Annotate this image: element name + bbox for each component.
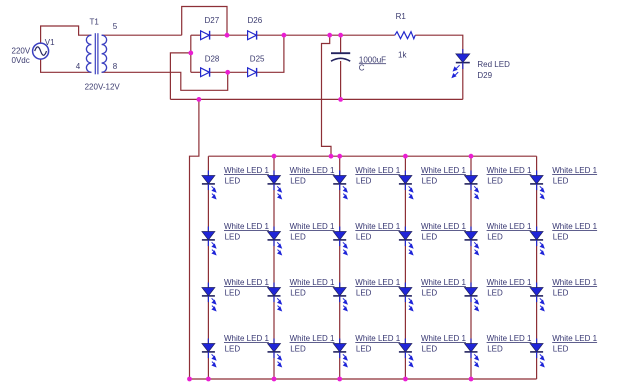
junction DC+ D25/D26 bbox=[282, 33, 287, 38]
junction bottom rail col4 bbox=[403, 377, 408, 382]
LED white (col 6, row 2) bbox=[530, 227, 544, 255]
svg-text:D29: D29 bbox=[477, 71, 492, 80]
svg-text:D28: D28 bbox=[205, 55, 220, 64]
svg-text:LED: LED bbox=[422, 177, 438, 186]
LED white (col 5, row 2) bbox=[465, 227, 479, 255]
junction top rail col4 bbox=[403, 154, 408, 159]
wire DC- tap to rail bbox=[170, 53, 190, 100]
LED white (col 4, row 2) bbox=[399, 227, 413, 255]
junction bottom rail col5 bbox=[469, 377, 474, 382]
wire D25 cathode up to DC+ rail bbox=[257, 35, 284, 72]
svg-text:LED: LED bbox=[422, 345, 438, 354]
svg-text:D25: D25 bbox=[250, 55, 265, 64]
wire LED array return bbox=[190, 99, 199, 379]
svg-text:LED: LED bbox=[290, 345, 306, 354]
LED white (col 5, row 1) bbox=[465, 171, 479, 199]
junction top rail col5 bbox=[469, 154, 474, 159]
svg-text:LED: LED bbox=[225, 289, 241, 298]
junction top rail feed bbox=[329, 154, 334, 159]
svg-text:5: 5 bbox=[113, 22, 118, 31]
LED white (col 2, row 1) bbox=[268, 171, 282, 199]
LED white (col 1, row 1) bbox=[202, 171, 216, 199]
svg-text:R1: R1 bbox=[396, 12, 407, 21]
LED white (col 6, row 1) bbox=[530, 171, 544, 199]
wire LED column 4 bbox=[404, 156, 406, 379]
LED white (col 1, row 3) bbox=[202, 283, 216, 311]
junction bottom rail col1 bbox=[206, 377, 211, 382]
svg-text:LED: LED bbox=[356, 233, 372, 242]
LED white (col 5, row 3) bbox=[465, 283, 479, 311]
svg-text:LED: LED bbox=[553, 177, 569, 186]
svg-text:LED: LED bbox=[553, 289, 569, 298]
svg-text:White LED 1: White LED 1 bbox=[487, 334, 532, 343]
wire DC+ drop to LED array bbox=[322, 35, 332, 156]
wire LED array top rail bbox=[208, 155, 536, 157]
junction top rail col2 bbox=[272, 154, 277, 159]
svg-text:D26: D26 bbox=[248, 16, 263, 25]
svg-text:V1: V1 bbox=[45, 38, 55, 47]
wire LED array bottom rail bbox=[190, 378, 537, 380]
diode D25 bbox=[248, 68, 257, 77]
svg-text:White LED 1: White LED 1 bbox=[290, 166, 335, 175]
LED white (col 6, row 4) bbox=[530, 339, 544, 367]
svg-text:White LED 1: White LED 1 bbox=[487, 278, 532, 287]
svg-text:LED: LED bbox=[553, 345, 569, 354]
junction cap bottom bbox=[338, 97, 343, 102]
LED white (col 3, row 1) bbox=[333, 171, 347, 199]
svg-text:White LED 1: White LED 1 bbox=[355, 222, 400, 231]
LED white (col 2, row 4) bbox=[268, 339, 282, 367]
wire D27 cathode to D26 anode bbox=[210, 34, 248, 36]
svg-text:White LED 1: White LED 1 bbox=[552, 166, 597, 175]
wire D27 anode lead bbox=[191, 34, 201, 36]
svg-text:White LED 1: White LED 1 bbox=[487, 222, 532, 231]
svg-text:D27: D27 bbox=[205, 16, 220, 25]
svg-text:220V: 220V bbox=[12, 47, 31, 56]
wire pin-5 hop over D27 anode bbox=[182, 7, 227, 36]
diode D27 bbox=[201, 31, 210, 40]
svg-text:White LED 1: White LED 1 bbox=[355, 278, 400, 287]
LED white (col 2, row 3) bbox=[268, 283, 282, 311]
svg-text:White LED 1: White LED 1 bbox=[290, 334, 335, 343]
svg-text:White LED 1: White LED 1 bbox=[552, 222, 597, 231]
svg-text:White LED 1: White LED 1 bbox=[290, 278, 335, 287]
svg-text:LED: LED bbox=[487, 345, 503, 354]
svg-text:220V-12V: 220V-12V bbox=[85, 83, 121, 92]
junction bottom rail col3 bbox=[337, 377, 342, 382]
svg-text:LED: LED bbox=[356, 177, 372, 186]
wire V1 bottom to T1 primary (pin 4) bbox=[41, 59, 92, 72]
red LED D29 bbox=[452, 49, 470, 77]
svg-text:White LED 1: White LED 1 bbox=[421, 222, 466, 231]
svg-text:C: C bbox=[359, 64, 365, 73]
wire V1 top to T1 primary bbox=[41, 26, 92, 43]
LED white (col 6, row 3) bbox=[530, 283, 544, 311]
wire LED column 6 bbox=[536, 156, 538, 379]
wire LED column 5 bbox=[470, 156, 472, 379]
wire capacitor bottom lead bbox=[340, 61, 342, 99]
LED white (col 3, row 4) bbox=[333, 339, 347, 367]
LED white (col 1, row 4) bbox=[202, 339, 216, 367]
svg-text:White LED 1: White LED 1 bbox=[487, 166, 532, 175]
diode D26 bbox=[248, 31, 257, 40]
wire LED column 3 bbox=[339, 156, 341, 379]
wire DC- rail bbox=[170, 98, 462, 100]
LED white (col 3, row 3) bbox=[333, 283, 347, 311]
svg-text:LED: LED bbox=[487, 177, 503, 186]
svg-text:White LED 1: White LED 1 bbox=[224, 334, 269, 343]
junction bottom rail col2 bbox=[272, 377, 277, 382]
diode D28 bbox=[201, 68, 210, 77]
junction DC+ array tap bbox=[327, 33, 332, 38]
wire D28 anode lead bbox=[191, 71, 201, 73]
svg-text:White LED 1: White LED 1 bbox=[421, 166, 466, 175]
junction pin8/D28/D25 bbox=[225, 70, 230, 75]
svg-text:White LED 1: White LED 1 bbox=[421, 334, 466, 343]
svg-text:White LED 1: White LED 1 bbox=[224, 222, 269, 231]
junction DC- tap bbox=[188, 51, 193, 56]
svg-text:1k: 1k bbox=[398, 51, 407, 60]
junction top rail col3 bbox=[337, 154, 342, 159]
svg-text:White LED 1: White LED 1 bbox=[355, 166, 400, 175]
svg-text:LED: LED bbox=[225, 177, 241, 186]
svg-text:White LED 1: White LED 1 bbox=[421, 278, 466, 287]
LED white (col 4, row 4) bbox=[399, 339, 413, 367]
LED white (col 1, row 2) bbox=[202, 227, 216, 255]
junction pin5/D27/D26 bbox=[225, 33, 230, 38]
svg-text:LED: LED bbox=[290, 289, 306, 298]
wire D27/D28 anode tie bbox=[190, 35, 192, 72]
svg-text:LED: LED bbox=[553, 233, 569, 242]
svg-text:0Vdc: 0Vdc bbox=[12, 56, 30, 65]
svg-text:T1: T1 bbox=[90, 18, 100, 27]
wire main DC+ rail to R1 bbox=[257, 34, 395, 36]
svg-text:White LED 1: White LED 1 bbox=[355, 334, 400, 343]
svg-text:White LED 1: White LED 1 bbox=[552, 278, 597, 287]
svg-text:LED: LED bbox=[356, 345, 372, 354]
svg-text:LED: LED bbox=[225, 345, 241, 354]
svg-text:LED: LED bbox=[290, 177, 306, 186]
svg-text:White LED 1: White LED 1 bbox=[224, 278, 269, 287]
svg-text:LED: LED bbox=[487, 289, 503, 298]
svg-text:LED: LED bbox=[290, 233, 306, 242]
LED white (col 2, row 2) bbox=[268, 227, 282, 255]
junction return on DC- rail bbox=[197, 97, 202, 102]
wire capacitor top lead bbox=[340, 35, 342, 53]
svg-text:White LED 1: White LED 1 bbox=[290, 222, 335, 231]
AC source V1 bbox=[33, 43, 49, 59]
svg-text:White LED 1: White LED 1 bbox=[224, 166, 269, 175]
LED white (col 4, row 3) bbox=[399, 283, 413, 311]
wire D28 cathode to D25 anode bbox=[210, 71, 248, 73]
wire LED column 1 bbox=[207, 156, 209, 379]
LED white (col 5, row 4) bbox=[465, 339, 479, 367]
LED white (col 3, row 2) bbox=[333, 227, 347, 255]
wire T1 pin 5 to bridge bbox=[102, 34, 182, 36]
junction cap top bbox=[338, 33, 343, 38]
svg-text:White LED 1: White LED 1 bbox=[552, 334, 597, 343]
svg-text:LED: LED bbox=[422, 233, 438, 242]
transformer T1 bbox=[86, 33, 106, 74]
wire T1 pin 8 detour under D28 bbox=[102, 72, 228, 90]
wire LED column 2 bbox=[273, 156, 275, 379]
svg-text:8: 8 bbox=[113, 62, 118, 71]
wire red LED cathode to DC- rail bbox=[462, 64, 464, 100]
svg-text:LED: LED bbox=[356, 289, 372, 298]
svg-text:LED: LED bbox=[422, 289, 438, 298]
svg-text:Red LED: Red LED bbox=[477, 60, 510, 69]
resistor R1 bbox=[395, 32, 415, 39]
junction bottom rail corner bbox=[187, 377, 192, 382]
wire R1 to red LED bbox=[415, 35, 463, 54]
LED white (col 4, row 1) bbox=[399, 171, 413, 199]
svg-text:LED: LED bbox=[487, 233, 503, 242]
svg-text:LED: LED bbox=[225, 233, 241, 242]
svg-text:4: 4 bbox=[76, 62, 81, 71]
capacitor C 1000uF bbox=[331, 53, 350, 61]
